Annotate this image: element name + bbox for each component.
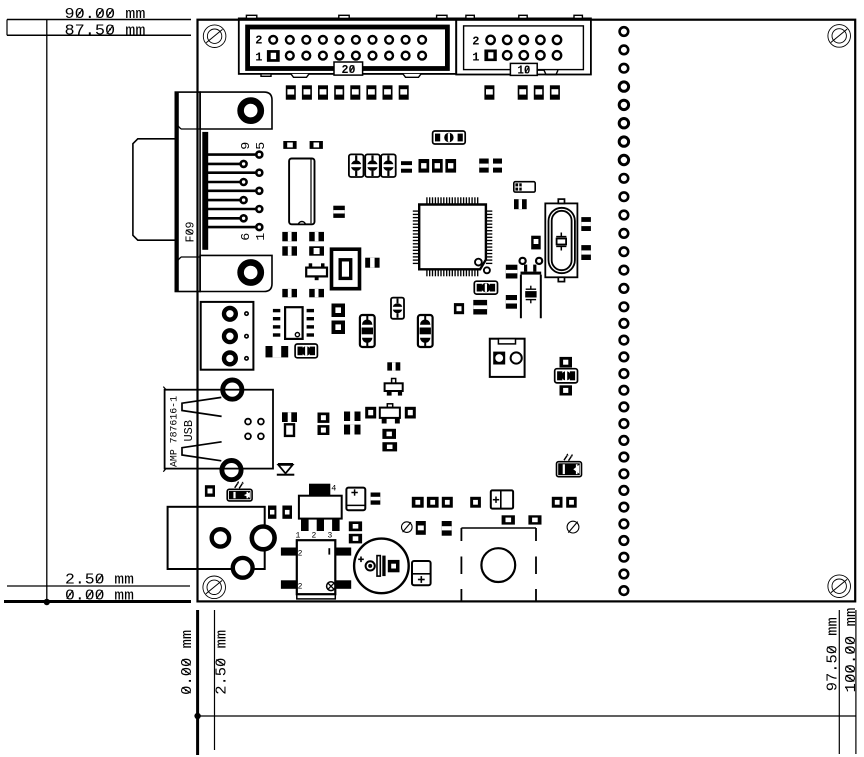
mounting hole top-right [828, 25, 851, 48]
svg-text:10: 10 [517, 64, 530, 78]
power jack X4 body [168, 507, 265, 569]
IDC-10 pin circles [486, 36, 494, 44]
USB left edge hooks [163, 387, 166, 390]
mounting hole top-left [203, 25, 226, 48]
svg-text:5: 5 [254, 142, 268, 150]
capacitor C7 with top tabs [309, 263, 313, 268]
crystal Q2 top bar [521, 272, 542, 275]
capacitor pads x=473 y=300 [473, 300, 487, 315]
svg-text:2.50 mm: 2.50 mm [213, 630, 230, 695]
QFP pins right [486, 210, 492, 212]
relay K1 pins [281, 548, 297, 556]
QFP pins top [426, 197, 428, 204]
svg-text:AMP 787616-1: AMP 787616-1 [169, 396, 180, 467]
USB mounting ring top [223, 380, 242, 399]
terminal block pads [224, 308, 236, 320]
capacitor C2 [365, 154, 380, 177]
crystal Q2 lead stems [524, 265, 527, 272]
IDC-20 top tabs [246, 15, 256, 18]
bottom dimension line x=100.00mm [855, 610, 857, 754]
terminal block pilot dots [245, 312, 248, 315]
buzzer B1 circle [354, 539, 409, 594]
microcontroller U1 QFP body [419, 205, 486, 270]
LED H1 [227, 489, 252, 501]
board outline [198, 20, 856, 602]
pads pair x=479-502 y=158 [479, 159, 489, 173]
button S1 circle [481, 548, 515, 582]
LED H2 [557, 462, 582, 477]
IC U2 pins [273, 309, 280, 312]
dimension origin dot left [44, 599, 50, 605]
svg-text:2: 2 [298, 549, 303, 558]
QFP pin-1 marker circles [475, 259, 482, 266]
dimension vertical extension line x=47 [46, 20, 48, 603]
bottom dimension origin dot [194, 713, 200, 719]
resistor R bar right of jumper [365, 258, 379, 268]
through-hole pads row below IDC-20 [286, 85, 296, 99]
hollow pad x=285 y=424 [285, 424, 294, 436]
capacitor pair row y=232 [282, 232, 297, 241]
pads row y=497 [412, 497, 424, 508]
IDC-10 top tabs [466, 15, 474, 18]
buzzer square pad [388, 560, 400, 572]
jumper JP1 thick rectangle [332, 249, 360, 289]
capacitor pads x=506 y=295 [506, 295, 517, 309]
power jack pad 2 [252, 527, 275, 550]
DB9 mounting ear top [200, 92, 272, 129]
capacitor C9 polarized [412, 561, 431, 585]
diameter symbol left [402, 522, 413, 533]
relay K1 screw mark [327, 582, 336, 591]
switch S2 body [299, 496, 342, 519]
IC U2 SOIC-8 body [285, 307, 303, 339]
dimension line 0.00 mm bottom-left (thick) [4, 600, 191, 603]
mounting hole bottom-right [828, 575, 851, 598]
pad x=205 y=485 [205, 485, 215, 497]
crystal Q2 symbol [530, 286, 532, 290]
crystal Q1 outline [545, 203, 577, 277]
svg-text:1: 1 [296, 531, 301, 540]
DB9 pins left column (9,8,7,6) [208, 163, 240, 166]
pads right of SOIC [332, 304, 346, 318]
USB pin circles [245, 419, 251, 425]
capacitor pair row y=289 [282, 289, 297, 297]
DB9 pin entry bar [202, 132, 208, 250]
capacitor pads x=581 y=245 [581, 245, 591, 260]
DB9 mounting ear bottom [200, 255, 272, 291]
power jack pad 1 [212, 529, 229, 546]
svg-text:0.00 mm: 0.00 mm [179, 630, 196, 695]
diode D4 vertical [418, 315, 433, 347]
IDC-10 bottom notch [537, 70, 558, 74]
dimension line 90.00 mm (board top edge) [7, 19, 191, 21]
capacitor pads x=581 y=217 [581, 217, 591, 231]
button S1 courtyard dashed box [461, 527, 536, 529]
DB9 flange body [175, 92, 200, 291]
capacitor pair row y=246 [282, 246, 297, 255]
pads above button [502, 515, 515, 524]
DB9 mounting hole top [241, 101, 261, 121]
IDC-10 label box 10 [510, 63, 537, 75]
svg-text:2.50 mm: 2.50 mm [65, 571, 134, 588]
pad x=531 y=236 [531, 236, 541, 250]
pads row y=521 [416, 521, 426, 535]
IDC-10 pin 1 square pad [484, 50, 496, 62]
pads x=349 y=521 stacked [349, 521, 362, 531]
crystal Q1 stadium rings [549, 208, 575, 273]
resistor pack pads right of caps [401, 161, 412, 173]
pad above D8 [560, 357, 573, 368]
capacitor pads x=344 y=412 [344, 412, 361, 422]
IDC-10 inner shroud rect [464, 26, 584, 70]
IDC-10 connector J6 outline [456, 18, 591, 74]
svg-text:1: 1 [472, 50, 479, 64]
pad below D8 [560, 385, 573, 395]
bottom dimension line x=2.50mm [214, 610, 216, 750]
pads below V2 [382, 429, 396, 439]
transistor V2 SOT-23 [387, 404, 392, 408]
svg-text:2: 2 [472, 34, 479, 48]
svg-text:20: 20 [342, 63, 356, 77]
crystal Q1 top and bottom tabs [558, 199, 564, 203]
IDC-20 shroud frame [248, 27, 448, 69]
svg-text:6: 6 [239, 233, 253, 241]
svg-text:1: 1 [254, 233, 268, 241]
svg-text:1: 1 [255, 50, 262, 64]
buzzer pad ring [366, 561, 375, 570]
IDC-20 pin circles [269, 36, 277, 44]
through-hole pads below IDC-10 [484, 85, 494, 99]
resistor R bar below C8 [514, 199, 527, 209]
DB9 mounting hole bottom [241, 262, 261, 282]
diode D3 vertical [360, 315, 375, 347]
diode D5 horizontal [433, 131, 466, 144]
svg-text:97.50 mm: 97.50 mm [824, 617, 841, 691]
diameter symbol right [567, 521, 579, 533]
pad right of V2 [405, 407, 416, 419]
IDC-20 connector J1 outline [239, 18, 456, 74]
resistor R bar x=387 y=362 [387, 362, 400, 370]
trimmer/jumper block body [490, 339, 525, 377]
svg-text:0.00 mm: 0.00 mm [65, 587, 134, 604]
dimension extension connector left [6, 20, 8, 36]
crystal Q2 lead circles [520, 258, 526, 264]
IC U3 body (SOIC-16 narrow) [289, 159, 314, 225]
capacitor C8 with plus box [514, 182, 535, 192]
QFP pins left [413, 210, 419, 212]
trimmer top notch [498, 339, 515, 344]
DB9 flange divisions [181, 128, 200, 130]
relay K1 body [297, 540, 336, 594]
mounting hole bottom-left [203, 576, 226, 599]
bottom dimension thick line x=0.00mm [196, 610, 199, 755]
USB connector X3 body [165, 390, 273, 469]
IDC-20 bottom tab and notches [261, 74, 271, 76]
trimmer pad circle [511, 352, 522, 363]
pad left of V2 [365, 407, 376, 419]
IDC-20 pin 1 square pad [267, 50, 280, 62]
svg-text:2: 2 [312, 531, 317, 540]
crystal Q1 symbol [560, 233, 562, 237]
svg-text:90.00 mm: 90.00 mm [65, 6, 146, 23]
jumper JP1 inner rect [340, 260, 351, 279]
capacitor C10 polarized with plus [491, 490, 513, 508]
svg-text:4: 4 [331, 483, 336, 493]
svg-text:2: 2 [298, 583, 303, 592]
DB9 connector X1 mating face trapezoid [133, 139, 175, 240]
capacitor pads x=371 y=492 [371, 493, 381, 505]
ground symbol (triangle) [278, 463, 293, 465]
bottom dimension leader line [198, 715, 856, 717]
transistor V1 SOT-23 [392, 379, 396, 384]
buzzer plus mark [358, 558, 364, 560]
DB9 pins right column (5,4,3,2,1) [208, 153, 255, 156]
capacitor C1 [349, 154, 364, 177]
power jack pad 3 [233, 558, 253, 578]
trimmer pad square with hole [493, 352, 505, 365]
crystal Q2 body [521, 275, 541, 319]
bottom dimension line x=97.50mm [838, 610, 840, 754]
diode D8 horizontal [555, 369, 578, 383]
svg-text:3: 3 [328, 531, 333, 540]
svg-text:9: 9 [239, 142, 253, 150]
resistor R bar below SOIC [266, 346, 289, 357]
dimension line 2.50 mm bottom-left [7, 585, 190, 587]
DB9 flange thick left edge [175, 92, 178, 291]
pad x=454 y=303 [454, 303, 464, 314]
USB mounting ring bottom [222, 461, 241, 480]
relay K1 bottom strip [297, 594, 336, 599]
switch S2 legs [301, 519, 309, 531]
pads right of power jack [268, 506, 276, 519]
resistor pads row y=141 pair [283, 141, 296, 149]
capacitor B2 polarized with plus [346, 488, 365, 511]
pads pair x=317 y=412 [318, 413, 330, 423]
svg-text:87.50 mm: 87.50 mm [65, 22, 146, 39]
svg-text:2: 2 [255, 34, 262, 48]
buzzer slot and bar [377, 556, 380, 577]
diode D6 [295, 344, 317, 358]
USB shield finger bottom [182, 442, 222, 461]
capacitor pads x=506 y=265 [506, 265, 518, 279]
diode D2 vertical [391, 298, 404, 319]
dimension line 87.50 mm [7, 34, 191, 36]
IDC-20 label box 20 [334, 62, 363, 75]
capacitor C3 [381, 154, 396, 177]
QFP pins bottom [426, 269, 428, 276]
diode D7 horizontal [474, 281, 497, 294]
terminal block X2 outline [201, 302, 254, 370]
capacitor pads x=282 y=412 [282, 412, 297, 422]
switch S2 actuator tab [309, 484, 330, 496]
svg-text:USB: USB [183, 420, 196, 442]
via stitching column [620, 27, 629, 36]
pad x=333 y=206 [333, 206, 345, 218]
USB shield finger top [182, 397, 222, 416]
